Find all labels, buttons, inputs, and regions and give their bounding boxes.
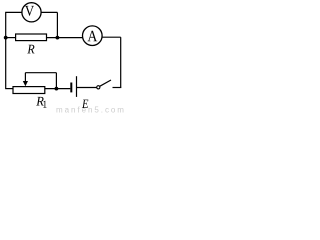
wire: switch fixed contact stub [113,87,122,89]
rheostat wiper arrowhead [23,81,28,86]
resistor label R [27,45,34,54]
wire: voltmeter right to corner [41,11,57,13]
node: left junction [4,36,8,40]
wire: main rail left segment [6,37,16,39]
voltmeter label V [25,6,34,16]
battery E negative plate (short) [70,83,72,93]
wire: left rail to rheostat [5,88,13,90]
rheostat label R1 subscript 1 [43,101,46,108]
wire: left vertical rail [5,12,7,88]
wire: switch to battery [77,87,97,89]
battery label E [82,100,88,108]
node: rheostat right junction [55,87,59,91]
rheostat label R1 [36,97,43,106]
ammeter U2 circle [83,26,103,46]
wire: wiper rail drop to junction [55,73,57,89]
wire: vertical drop from voltmeter branch [56,12,58,37]
svg-text:manfen5.com: manfen5.com [56,105,126,114]
voltmeter U1 circle [22,3,41,22]
switch S1 lever [100,80,111,86]
rheostat R1 body [13,87,45,94]
ammeter label A [87,31,97,42]
rheostat wiper arrow shaft [24,73,26,82]
switch S1 pivot [97,86,100,89]
wire: top-left horizontal to voltmeter [5,11,22,13]
wire: wiper rail horizontal [25,72,56,74]
resistor R body [16,34,47,41]
wire: right vertical rail [120,37,122,87]
wire: ammeter right to top-right corner [102,36,121,38]
wire: main rail middle segment to ammeter [47,37,83,39]
wire: battery to rheostat junction [45,88,71,90]
battery E positive plate (long) [76,76,78,97]
node: right junction of voltmeter branch [56,36,60,40]
